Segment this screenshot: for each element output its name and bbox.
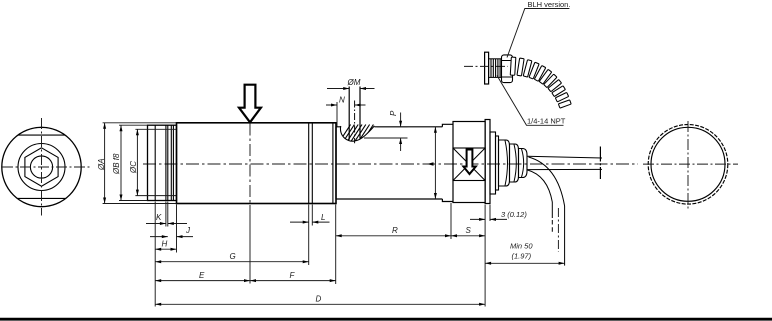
load centerline through cylinder	[249, 124, 251, 206]
extension line gland flange right	[489, 205, 491, 222]
dimension G	[155, 261, 309, 263]
left end view bottom wrench flat chord	[17, 197, 66, 199]
extension line neck end / R-S	[450, 203, 452, 239]
neck lip ring	[442, 124, 453, 201]
right end view horizontal centerline	[643, 163, 738, 165]
extension line cylinder face	[176, 205, 178, 253]
svg-text:ØM: ØM	[347, 78, 361, 87]
BLH fitting flange	[485, 52, 489, 84]
dimension ØB line	[120, 125, 122, 200]
left end view middle circle	[18, 144, 65, 191]
cylinder end face line	[332, 123, 334, 204]
stub collar line 1	[170, 125, 172, 200]
dimension H	[155, 248, 176, 250]
stub chamfer line	[154, 125, 156, 200]
dimension L	[290, 221, 330, 223]
connector block	[453, 122, 485, 203]
neck section	[336, 127, 442, 199]
left end view inner circle	[30, 156, 52, 178]
gland band 2	[496, 136, 499, 190]
bent cable vertical line outer	[564, 206, 566, 266]
svg-text:(1.97): (1.97)	[512, 252, 532, 261]
hole centerline	[354, 101, 356, 144]
side view horizontal centerline	[143, 163, 638, 165]
bottom border thick line	[0, 318, 772, 321]
main cylinder body	[177, 123, 337, 204]
svg-text:G: G	[230, 252, 236, 261]
left end view outer circle	[2, 127, 81, 206]
bent cable centerline	[557, 208, 559, 252]
gland tip cup	[519, 149, 528, 178]
thread minor diameter line top (ØC)	[135, 128, 176, 130]
gland cup inner arc 2	[514, 144, 516, 181]
dimension Min 50 line	[485, 262, 564, 264]
right end view outer dashed circle	[648, 125, 728, 205]
gland cup inner arc 3	[522, 149, 524, 177]
svg-text:L: L	[321, 213, 325, 222]
dimension ØM line	[327, 88, 375, 90]
dimension R	[336, 235, 451, 237]
ØM threaded hole notch outline	[340, 126, 374, 141]
BLH fitting threaded stub	[489, 59, 502, 78]
gland flange plate	[485, 120, 490, 204]
notch left corner extension line	[336, 102, 338, 127]
bent cable vertical line inner	[551, 202, 553, 218]
cylinder groove line 1	[308, 123, 310, 204]
left end view horizontal centerline	[2, 166, 90, 168]
straight cable top line	[527, 156, 602, 158]
bent cable inner curve	[528, 170, 553, 202]
svg-text:D: D	[316, 295, 322, 304]
small down arrow in window	[463, 150, 475, 175]
dimension S	[451, 235, 485, 237]
svg-text:P: P	[389, 110, 398, 116]
dimension N line	[326, 104, 366, 106]
gland band 1	[490, 132, 496, 194]
right end view inner circle	[651, 127, 725, 201]
left end view vertical centerline	[41, 118, 43, 216]
dimension K	[146, 223, 187, 225]
1/4-14 NPT leader line	[497, 76, 564, 126]
dimension neck diameter line	[434, 127, 436, 199]
gland cup 1	[499, 140, 510, 186]
svg-text:S: S	[466, 226, 472, 235]
dimension ØA line	[104, 123, 106, 204]
hole wall left / ØM extension	[348, 87, 350, 140]
left end view top wrench flat chord	[18, 134, 65, 136]
bent cable outer curve	[529, 157, 565, 206]
thread minor diameter line bottom (ØC)	[135, 195, 176, 197]
BLH fitting hex nut	[502, 55, 513, 83]
dimension 3 (0.12)	[470, 218, 507, 220]
svg-text:ØB f8: ØB f8	[112, 153, 121, 175]
svg-text:E: E	[199, 271, 205, 280]
svg-text:1/4-14 NPT: 1/4-14 NPT	[527, 117, 566, 126]
svg-text:F: F	[290, 271, 296, 280]
extension line x=155 (left datum)	[154, 202, 156, 307]
dimension ØB extension lines	[119, 125, 148, 200]
threaded stub body	[148, 125, 177, 200]
cable end bar	[599, 147, 601, 180]
extension lines groove pair	[166, 202, 168, 227]
svg-text:H: H	[162, 240, 168, 249]
dimension J	[150, 236, 193, 238]
svg-text:N: N	[339, 96, 345, 105]
hole wall right / ØM extension	[359, 87, 361, 140]
centerline arrowhead near neck dimension	[427, 162, 434, 165]
load center extension line below	[249, 205, 251, 284]
connector window square with X	[453, 148, 485, 181]
svg-text:R: R	[392, 226, 398, 235]
load arrow above cylinder	[239, 85, 261, 123]
dimension ØA extension lines	[103, 123, 177, 204]
extension line D right / S right	[484, 205, 486, 307]
svg-text:J: J	[185, 226, 191, 235]
stub groove line 2	[167, 125, 169, 200]
right end view vertical centerline	[687, 121, 689, 210]
extension line L right	[311, 205, 313, 226]
svg-text:BLH version.: BLH version.	[528, 0, 571, 9]
dimension F	[250, 280, 336, 282]
svg-text:Min 50: Min 50	[510, 242, 533, 251]
dimension ØC line	[136, 129, 138, 195]
dimension P extension line (neck top)	[377, 126, 408, 128]
extension line neck start	[335, 205, 337, 285]
svg-text:3 (0.12): 3 (0.12)	[501, 210, 527, 219]
extension line G end	[308, 205, 310, 266]
cylinder groove line 2	[311, 123, 313, 204]
dimension P extension line (hole bottom)	[364, 137, 408, 139]
svg-text:ØA: ØA	[97, 158, 106, 171]
svg-text:ØC: ØC	[129, 161, 138, 174]
BLH version leader line	[507, 9, 569, 58]
gland cup 2	[510, 144, 519, 182]
svg-text:K: K	[156, 213, 162, 222]
gland cup inner arc 1	[505, 140, 508, 185]
dimension P line	[400, 113, 402, 152]
stub groove line 1	[165, 125, 167, 200]
BLH flexible conduit coil	[510, 57, 571, 108]
dimension D	[155, 303, 485, 305]
stub collar line 2	[172, 125, 174, 200]
left end view hex nut	[25, 148, 58, 186]
straight cable bottom line	[527, 168, 602, 170]
BLH fitting centerline	[464, 65, 508, 67]
dimension E	[155, 280, 250, 282]
